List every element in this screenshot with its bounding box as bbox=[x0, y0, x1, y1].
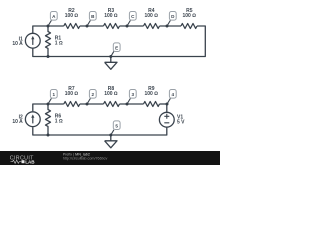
svg-text:5 V: 5 V bbox=[177, 120, 185, 126]
node B box bbox=[89, 12, 96, 21]
wire tap node 3 bbox=[127, 98, 130, 104]
svg-text:1: 1 bbox=[53, 92, 56, 97]
svg-text:100 Ω: 100 Ω bbox=[145, 91, 159, 97]
node 1 box bbox=[50, 90, 57, 99]
CircuitLab logo bbox=[10, 155, 36, 164]
svg-text:5: 5 bbox=[115, 124, 118, 129]
wire tap node A bbox=[48, 20, 51, 26]
svg-text:100 Ω: 100 Ω bbox=[145, 13, 159, 19]
current source I1 bbox=[25, 33, 40, 48]
svg-text:LAB: LAB bbox=[25, 159, 35, 164]
junction node 4 bbox=[166, 103, 169, 106]
svg-text:2: 2 bbox=[92, 92, 95, 97]
junction node A bbox=[47, 25, 50, 28]
current source I2 bbox=[25, 112, 40, 127]
svg-text:100 Ω: 100 Ω bbox=[183, 13, 197, 19]
wire R9 to node 4 bbox=[160, 103, 168, 105]
resistor R2 bbox=[64, 24, 80, 29]
resistor R6 bbox=[46, 104, 51, 135]
resistor R1 bbox=[46, 26, 51, 57]
voltage source V1 bbox=[159, 112, 174, 127]
junction node 5 / ground bbox=[109, 134, 112, 137]
svg-text:http://circuitlab.com/766bcv: http://circuitlab.com/766bcv bbox=[63, 156, 108, 160]
svg-text:10 A: 10 A bbox=[12, 119, 23, 125]
junction node C bbox=[126, 25, 129, 28]
resistor R4 bbox=[144, 24, 160, 29]
wire node 4 to V1 bbox=[166, 104, 168, 112]
wire right wrap and bottom rail bbox=[33, 26, 206, 57]
wire tap node 4 bbox=[167, 98, 170, 104]
resistor R3 bbox=[104, 24, 120, 29]
svg-text:4: 4 bbox=[172, 92, 175, 97]
resistor R7 bbox=[64, 102, 80, 107]
wire bottom circuit: left column and top rail bbox=[33, 104, 64, 111]
wire tap node E bbox=[111, 51, 114, 56]
wire tap node D bbox=[167, 20, 170, 26]
node 5 box bbox=[113, 121, 120, 130]
svg-text:3: 3 bbox=[132, 92, 135, 97]
wire bbox=[120, 103, 144, 105]
wire bbox=[80, 103, 104, 105]
node 3 box bbox=[129, 90, 136, 99]
svg-text:100 Ω: 100 Ω bbox=[65, 13, 79, 19]
wire tap node 1 bbox=[48, 98, 51, 104]
svg-text:E: E bbox=[115, 46, 118, 51]
wire bbox=[80, 25, 104, 27]
node 2 box bbox=[89, 90, 96, 99]
junction node D bbox=[166, 25, 169, 28]
node A box bbox=[50, 12, 57, 21]
I1 arrowhead bbox=[31, 36, 34, 39]
svg-text:100 Ω: 100 Ω bbox=[104, 13, 118, 19]
wire bbox=[160, 25, 182, 27]
svg-text:10 A: 10 A bbox=[12, 41, 23, 47]
wire tap node B bbox=[87, 20, 90, 26]
resistor R9 bbox=[144, 102, 160, 107]
watermark text bbox=[63, 152, 108, 160]
I2 arrowhead bbox=[31, 114, 34, 117]
watermark bar bbox=[0, 151, 220, 165]
wire tap node 5 bbox=[111, 130, 114, 135]
resistor R5 bbox=[181, 24, 197, 29]
svg-text:100 Ω: 100 Ω bbox=[65, 91, 79, 97]
node 4 box bbox=[169, 90, 176, 99]
node E box bbox=[113, 43, 120, 52]
wire top circuit: left column and top rail bbox=[33, 26, 64, 33]
node C box bbox=[129, 12, 136, 21]
resistor R8 bbox=[104, 102, 120, 107]
junction R6 bottom bbox=[47, 134, 50, 137]
junction node 2 bbox=[86, 103, 89, 106]
junction node E / ground bbox=[109, 55, 112, 58]
wire V1 to bottom rail bbox=[33, 127, 167, 135]
svg-text:1 Ω: 1 Ω bbox=[55, 119, 63, 125]
junction node B bbox=[86, 25, 89, 28]
junction node 3 bbox=[126, 103, 129, 106]
node D box bbox=[169, 12, 176, 21]
ground (bottom circuit) bbox=[105, 135, 117, 148]
wire tap node 2 bbox=[87, 98, 90, 104]
ground (top circuit) bbox=[105, 57, 117, 70]
svg-text:100 Ω: 100 Ω bbox=[104, 91, 118, 97]
junction node 1 bbox=[47, 103, 50, 106]
wire tap node C bbox=[127, 20, 130, 26]
wire bbox=[120, 25, 144, 27]
svg-text:1 Ω: 1 Ω bbox=[55, 41, 63, 47]
junction R1 bottom bbox=[47, 55, 50, 58]
